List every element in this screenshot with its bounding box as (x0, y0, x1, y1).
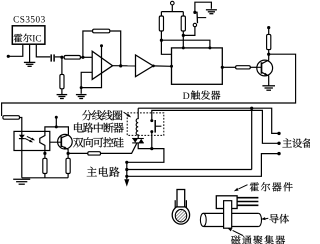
wire U3 to U4 (153, 65, 171, 67)
node IN dot (7, 55, 10, 58)
wire main top (127, 149, 164, 163)
wire U4 output (222, 66, 235, 68)
wire node B to switch (183, 27, 195, 36)
contact K1 (150, 119, 161, 133)
wire gate (68, 152, 88, 154)
resistor R10 (66, 153, 70, 177)
node B dot (182, 34, 185, 37)
ground G5 (262, 86, 275, 90)
wire U1 pin2 (29, 45, 31, 62)
node A dot (160, 39, 163, 42)
flux strap (224, 201, 232, 229)
node MC1 dot (125, 161, 128, 164)
wire feedback down (110, 31, 121, 66)
wire line3 contact top (152, 110, 279, 143)
wire R1 out (80, 56, 92, 58)
wire T stub (55, 117, 57, 127)
terminal dot main1 (277, 132, 280, 135)
node E2 dot (67, 152, 70, 155)
wire U2 output (113, 65, 136, 67)
label main circuit (87, 167, 120, 177)
node MC2 dot (125, 168, 128, 171)
wire R6 to Q1 (250, 66, 257, 68)
pin U4 Q dot (221, 66, 224, 69)
node C1 dot (267, 53, 270, 56)
label flux concentrator (227, 228, 285, 244)
pin U4 D dot (182, 46, 185, 49)
wire R2 bottom (61, 89, 63, 95)
wire SW1 to ground (195, 2, 212, 12)
resistor R1 (64, 56, 80, 60)
wire detector to Q2 collector (45, 127, 69, 135)
wire K1 bottom (151, 132, 153, 149)
wire supply rail (161, 5, 183, 12)
node M dot (150, 147, 153, 150)
label circuit interrupter (74, 123, 124, 133)
switch SW1 (193, 11, 206, 27)
ground G6 (13, 179, 30, 184)
node VCC2 dot (267, 26, 270, 29)
resistor R11 (88, 152, 101, 155)
label triac text (73, 137, 124, 147)
inductor L1 trip coil (136, 108, 138, 138)
transistor Q2 (50, 134, 72, 153)
LED arrows (25, 136, 35, 142)
capacitor C1 (51, 54, 62, 61)
resistor R6 (236, 66, 251, 69)
wire V1 (251, 108, 253, 169)
resistor R7 (267, 28, 271, 54)
label hall device (234, 182, 293, 191)
node T dot (55, 116, 58, 119)
hall leads (237, 198, 258, 206)
ground G2 (57, 95, 68, 99)
conductor cross-section (175, 209, 186, 222)
hall element in gap (177, 190, 185, 207)
node N1 dot (60, 56, 63, 59)
label conductor (261, 214, 289, 223)
dashed box breaker (127, 113, 164, 135)
wire U1 pin1 left (8, 45, 22, 56)
svg-text:CS3503: CS3503 (13, 15, 46, 25)
resistor R8 (3, 116, 20, 120)
resistor R5 (181, 12, 185, 36)
node P dot (250, 107, 253, 110)
LED D1 (19, 131, 25, 177)
op-amp U2 (92, 51, 112, 79)
resistor R9 (43, 153, 47, 177)
wire feedback up (83, 31, 93, 57)
node U3 out dot (152, 65, 155, 68)
node N2 dot (81, 56, 84, 59)
wire node A to U4 top (161, 40, 210, 48)
wire R8 to LED (20, 118, 22, 132)
wire R11 to triac gate (101, 143, 137, 153)
terminal VCC circle (171, 1, 175, 5)
label D flip-flop (183, 90, 221, 101)
ground G3 (76, 95, 87, 99)
node N3 dot (80, 86, 83, 89)
transistor Q1 (257, 54, 273, 85)
Hall IC U1 box (12, 26, 45, 45)
pin U4 left dot (170, 65, 173, 68)
core ring (172, 200, 189, 224)
wire main bottom (127, 154, 279, 177)
node V+ dot (100, 44, 103, 47)
wire main mid (127, 169, 252, 171)
node E3 dot (43, 152, 46, 155)
wire node A to U4 left (161, 40, 171, 54)
earth arrow (124, 179, 129, 186)
node MC3 dot (125, 175, 128, 178)
ground G1 (24, 62, 35, 66)
photodetector (40, 131, 45, 153)
resistor R4 (159, 12, 163, 41)
node T2 dot (55, 125, 58, 128)
ground G4 (206, 10, 217, 14)
wire ground rail (22, 177, 68, 179)
triac Q3 (132, 139, 144, 143)
wire MC vertical (126, 162, 128, 179)
terminal dot main3 (277, 152, 280, 155)
label CS3503 (13, 15, 46, 25)
wire node B to U4 top (182, 35, 184, 48)
terminal dot main2 (277, 142, 280, 145)
resistor R3 feedback (93, 29, 110, 33)
optocoupler U5 box (14, 131, 50, 150)
buffer U3 (136, 55, 154, 77)
pin U4 CLK dot (208, 46, 211, 49)
wire W1 collector to LED (2, 54, 296, 116)
svg-text:D: D (183, 91, 190, 102)
conductor tube (200, 213, 261, 226)
wire triac anode (138, 143, 152, 149)
wire U2 inv input (81, 72, 92, 94)
wire R2 top (61, 57, 63, 74)
wire U1 pin3 right (36, 45, 50, 57)
hall sensor block (216, 196, 237, 209)
label branch coil (82, 110, 131, 120)
D flip-flop U4 box (172, 48, 223, 84)
svg-text:IC: IC (32, 35, 41, 45)
label main equipment (282, 138, 312, 147)
wire line2 coil top (138, 108, 279, 133)
resistor R2 (60, 74, 64, 88)
node N4 dot (119, 64, 122, 67)
wire U2 V+ stub (81, 46, 101, 88)
